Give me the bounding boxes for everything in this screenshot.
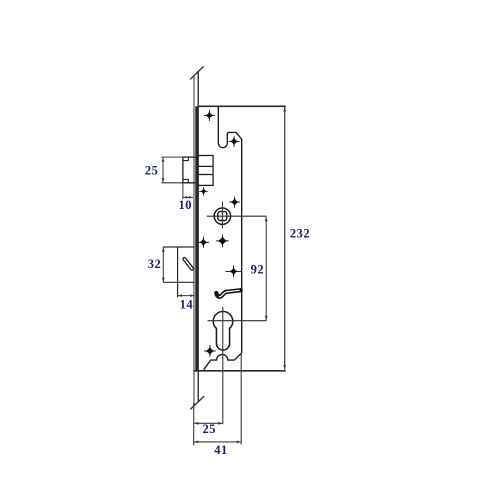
screw S8 <box>204 345 216 357</box>
faceplate bottom break mark <box>190 396 204 409</box>
svg-text:14: 14 <box>180 298 194 312</box>
svg-text:32: 32 <box>148 257 162 271</box>
svg-text:25: 25 <box>145 163 159 177</box>
dim 10 dimension line <box>183 196 193 198</box>
svg-text:232: 232 <box>290 227 310 241</box>
lock case top notch and right edge <box>218 106 241 353</box>
dim 41 dimension line <box>194 441 242 443</box>
hook slot in box <box>184 259 192 269</box>
dim 32 dimension line <box>162 247 164 282</box>
latch bolt head <box>183 157 197 183</box>
spindle follower outer circle <box>214 208 230 224</box>
lock case left edge <box>197 72 199 402</box>
dim 232 dimension line <box>284 107 286 370</box>
dim 14 dimension line <box>178 295 195 297</box>
hook box top line with 32 extension <box>163 246 194 248</box>
lock case bottom edge (232 bottom extension) <box>194 370 286 372</box>
latch head top corner square <box>183 157 188 161</box>
screw S6 <box>216 235 229 248</box>
dim 25 top dimension line <box>162 157 164 183</box>
dim 25 bottom dimension line <box>194 422 223 424</box>
euro cylinder profile <box>213 312 233 351</box>
dim 92 dimension line <box>265 217 267 321</box>
screw S3 <box>199 187 208 196</box>
screw S7 <box>225 266 241 278</box>
dim 10 extension line <box>182 183 184 200</box>
spindle vertical centerline <box>221 202 223 229</box>
screw S4 <box>229 196 240 207</box>
latch body inner line 1 <box>198 165 213 167</box>
spindle horizontal centerline <box>207 215 266 217</box>
lever spring shape <box>216 290 240 297</box>
latch head bottom corner square <box>183 179 188 182</box>
cylinder vertical centerline (extends to 25 dim) <box>222 307 224 424</box>
svg-text:10: 10 <box>178 198 192 212</box>
screw S1 <box>204 110 215 121</box>
svg-text:41: 41 <box>214 443 228 457</box>
faceplate dark line <box>195 106 197 371</box>
hook box left edge (extends to 14 dim) <box>177 247 179 297</box>
right extension line for 41 dim <box>240 354 242 445</box>
lock case bottom zigzag edge <box>204 353 242 370</box>
svg-text:92: 92 <box>251 263 265 277</box>
screw S5 <box>198 237 209 248</box>
hook box bottom line with 32 extension <box>163 281 194 283</box>
dim 25 top extension lines <box>161 156 183 158</box>
faceplate gray edge line <box>193 76 195 407</box>
screw S2 <box>229 136 240 147</box>
faceplate top angled cut <box>190 66 203 79</box>
spindle follower square hole <box>218 212 227 221</box>
lock case top edge (232 top extension) <box>197 105 286 107</box>
left extension line for 41 dim <box>193 403 195 446</box>
svg-text:25: 25 <box>202 422 216 436</box>
latch body in case <box>198 156 213 186</box>
latch body inner line 2 <box>198 174 213 176</box>
cylinder horizontal centerline <box>208 320 267 322</box>
